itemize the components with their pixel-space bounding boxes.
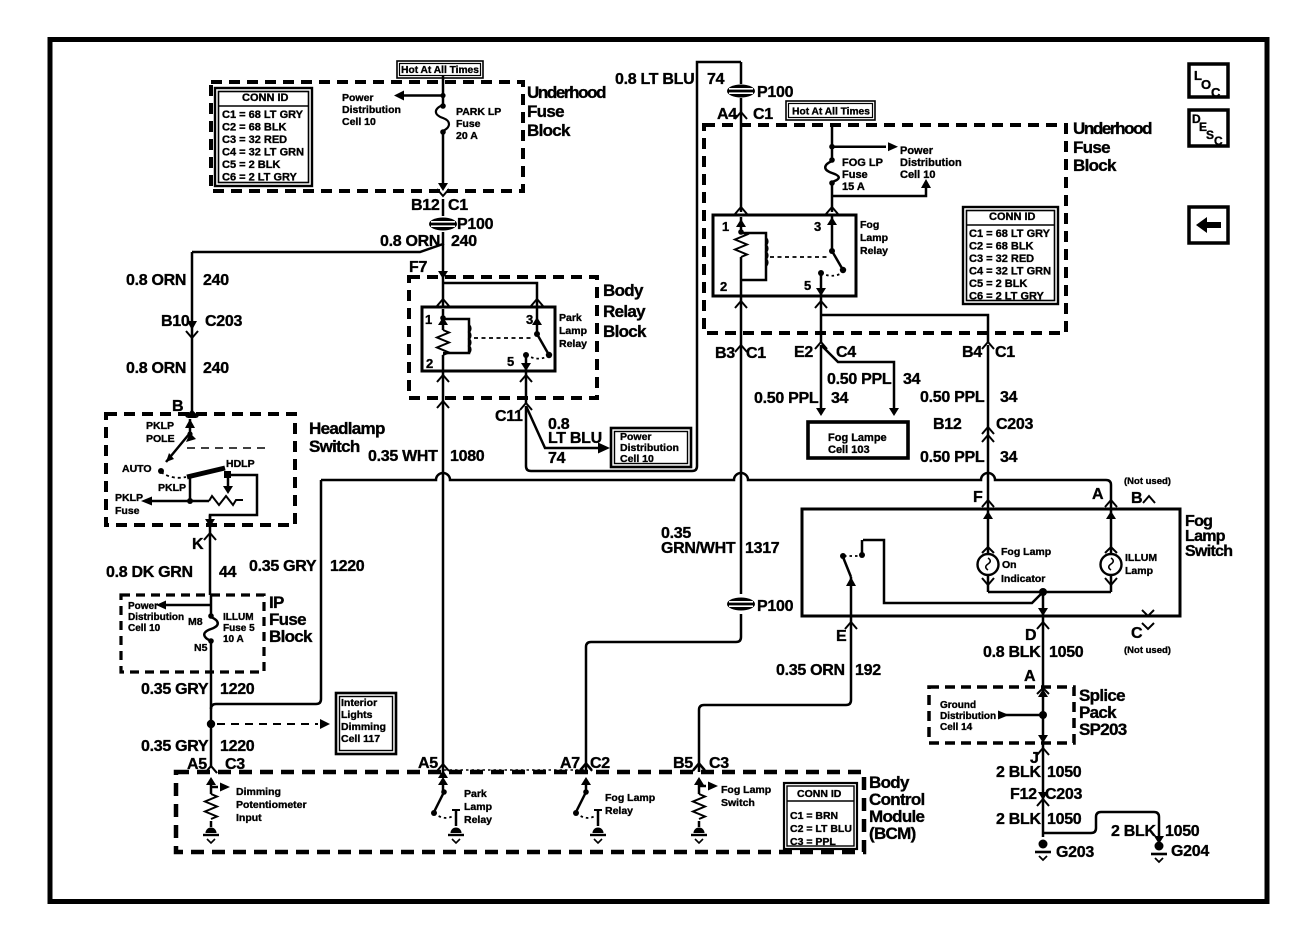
svg-text:Switch: Switch bbox=[309, 437, 360, 456]
svg-text:C5 = 2 BLK: C5 = 2 BLK bbox=[969, 278, 1027, 290]
svg-text:C1: C1 bbox=[995, 344, 1015, 361]
svg-text:(Not used): (Not used) bbox=[1124, 476, 1171, 487]
svg-text:Underhood: Underhood bbox=[1073, 119, 1152, 138]
svg-text:5: 5 bbox=[804, 278, 811, 293]
svg-text:B3: B3 bbox=[715, 345, 735, 362]
svg-text:Fog Lamp: Fog Lamp bbox=[1001, 546, 1051, 558]
svg-text:34: 34 bbox=[831, 390, 849, 407]
svg-text:C2 = 68 BLK: C2 = 68 BLK bbox=[969, 241, 1034, 253]
svg-text:Body: Body bbox=[603, 281, 644, 300]
svg-text:S: S bbox=[1206, 128, 1214, 142]
svg-text:Distribution: Distribution bbox=[940, 711, 996, 722]
svg-text:Dimming: Dimming bbox=[236, 786, 281, 798]
svg-text:1050: 1050 bbox=[1049, 644, 1084, 661]
svg-text:M8: M8 bbox=[188, 616, 203, 628]
svg-text:1050: 1050 bbox=[1047, 811, 1082, 828]
svg-text:Input: Input bbox=[236, 812, 262, 824]
svg-text:POLE: POLE bbox=[146, 433, 175, 445]
svg-text:ILLUM: ILLUM bbox=[223, 612, 254, 623]
svg-text:Relay: Relay bbox=[605, 805, 633, 817]
svg-text:Fog: Fog bbox=[860, 219, 879, 231]
svg-text:C3 = 32 RED: C3 = 32 RED bbox=[222, 134, 287, 146]
svg-text:F12: F12 bbox=[1010, 786, 1037, 803]
svg-text:1050: 1050 bbox=[1165, 823, 1200, 840]
svg-text:2 BLK: 2 BLK bbox=[996, 764, 1041, 781]
svg-text:B10: B10 bbox=[161, 313, 190, 330]
svg-text:PKLP: PKLP bbox=[158, 482, 186, 494]
svg-text:C203: C203 bbox=[205, 313, 242, 330]
svg-text:2 BLK: 2 BLK bbox=[1111, 823, 1156, 840]
svg-text:Interior: Interior bbox=[341, 697, 377, 709]
svg-text:Cell 10: Cell 10 bbox=[342, 116, 376, 128]
svg-text:0.8 ORN: 0.8 ORN bbox=[126, 360, 186, 377]
svg-text:CONN ID: CONN ID bbox=[242, 92, 289, 104]
svg-text:Fuse: Fuse bbox=[842, 169, 868, 181]
svg-text:C: C bbox=[1214, 134, 1223, 148]
svg-text:2: 2 bbox=[720, 279, 727, 294]
svg-text:E: E bbox=[836, 628, 847, 645]
svg-text:C11: C11 bbox=[495, 408, 523, 425]
svg-text:Hot At All Times: Hot At All Times bbox=[792, 107, 870, 118]
svg-text:A4: A4 bbox=[717, 106, 737, 123]
svg-text:A5: A5 bbox=[418, 755, 438, 772]
svg-text:B4: B4 bbox=[962, 344, 982, 361]
svg-text:Lamp: Lamp bbox=[464, 801, 492, 813]
svg-text:C1: C1 bbox=[746, 345, 766, 362]
svg-text:PKLP: PKLP bbox=[115, 492, 143, 504]
svg-text:Block: Block bbox=[603, 322, 647, 341]
svg-text:D: D bbox=[1025, 627, 1036, 644]
svg-text:0.8 ORN: 0.8 ORN bbox=[126, 272, 186, 289]
svg-text:G203: G203 bbox=[1056, 844, 1094, 861]
svg-text:B12: B12 bbox=[411, 197, 440, 214]
svg-text:Block: Block bbox=[1073, 156, 1117, 175]
svg-text:1: 1 bbox=[425, 312, 432, 327]
svg-text:Headlamp: Headlamp bbox=[309, 419, 385, 438]
svg-text:P100: P100 bbox=[757, 598, 794, 615]
svg-text:Potentiometer: Potentiometer bbox=[236, 799, 307, 811]
svg-text:GRN/WHT: GRN/WHT bbox=[661, 540, 736, 557]
svg-text:Lamp: Lamp bbox=[559, 325, 587, 337]
svg-text:AUTO: AUTO bbox=[122, 463, 152, 475]
svg-text:Relay: Relay bbox=[559, 338, 587, 350]
svg-text:240: 240 bbox=[203, 272, 229, 289]
svg-text:192: 192 bbox=[855, 662, 881, 679]
svg-text:240: 240 bbox=[451, 233, 477, 250]
svg-text:C1 = 68 LT GRY: C1 = 68 LT GRY bbox=[222, 109, 304, 121]
svg-text:1050: 1050 bbox=[1047, 764, 1082, 781]
svg-text:0.50 PPL: 0.50 PPL bbox=[754, 390, 819, 407]
svg-text:N5: N5 bbox=[194, 642, 208, 654]
svg-text:Park: Park bbox=[559, 312, 582, 324]
svg-text:C6 = 2 LT GRY: C6 = 2 LT GRY bbox=[969, 291, 1045, 303]
svg-text:Cell 103: Cell 103 bbox=[828, 444, 870, 456]
svg-text:Ground: Ground bbox=[940, 700, 976, 711]
svg-text:1220: 1220 bbox=[220, 738, 255, 755]
svg-text:Fog Lamp: Fog Lamp bbox=[721, 784, 771, 796]
svg-text:B: B bbox=[1131, 490, 1142, 507]
svg-text:15 A: 15 A bbox=[842, 181, 865, 193]
svg-text:C2 = 68 BLK: C2 = 68 BLK bbox=[222, 122, 287, 134]
svg-text:2 BLK: 2 BLK bbox=[996, 811, 1041, 828]
svg-text:1080: 1080 bbox=[450, 448, 485, 465]
svg-text:74: 74 bbox=[548, 450, 566, 467]
svg-text:A: A bbox=[1024, 668, 1036, 685]
svg-text:3: 3 bbox=[814, 219, 821, 234]
svg-text:Fuse: Fuse bbox=[527, 102, 564, 121]
svg-text:(Not used): (Not used) bbox=[1124, 645, 1171, 656]
svg-text:0.50 PPL: 0.50 PPL bbox=[827, 371, 892, 388]
svg-text:Fuse: Fuse bbox=[1073, 138, 1110, 157]
svg-text:C2: C2 bbox=[590, 755, 610, 772]
svg-text:Distribution: Distribution bbox=[128, 612, 184, 623]
svg-text:0.8 BLK: 0.8 BLK bbox=[983, 644, 1041, 661]
svg-text:Dimming: Dimming bbox=[341, 721, 386, 733]
svg-text:0.50 PPL: 0.50 PPL bbox=[920, 389, 985, 406]
svg-text:Cell 10: Cell 10 bbox=[620, 453, 654, 465]
svg-text:0.8 DK GRN: 0.8 DK GRN bbox=[106, 564, 193, 581]
svg-text:B: B bbox=[172, 398, 183, 415]
svg-text:P100: P100 bbox=[457, 216, 494, 233]
svg-text:F7: F7 bbox=[409, 259, 427, 276]
svg-text:HDLP: HDLP bbox=[226, 458, 255, 470]
svg-text:G204: G204 bbox=[1171, 843, 1209, 860]
svg-text:0.50 PPL: 0.50 PPL bbox=[920, 449, 985, 466]
svg-text:PARK LP: PARK LP bbox=[456, 106, 501, 118]
svg-text:Park: Park bbox=[464, 788, 487, 800]
svg-text:34: 34 bbox=[1000, 449, 1018, 466]
svg-text:C5 = 2 BLK: C5 = 2 BLK bbox=[222, 159, 280, 171]
svg-text:CONN ID: CONN ID bbox=[989, 211, 1036, 223]
svg-text:0.35 ORN: 0.35 ORN bbox=[776, 662, 845, 679]
svg-text:Fog Lamp: Fog Lamp bbox=[605, 792, 655, 804]
svg-text:44: 44 bbox=[219, 564, 237, 581]
svg-text:Relay: Relay bbox=[860, 245, 888, 257]
svg-text:0.8 ORN: 0.8 ORN bbox=[380, 233, 440, 250]
svg-text:C4: C4 bbox=[836, 344, 856, 361]
svg-text:Fog Lampe: Fog Lampe bbox=[828, 432, 887, 444]
svg-text:74: 74 bbox=[707, 71, 725, 88]
svg-text:FOG LP: FOG LP bbox=[842, 157, 883, 169]
svg-text:Switch: Switch bbox=[721, 797, 755, 809]
svg-text:C203: C203 bbox=[1045, 786, 1082, 803]
svg-text:0.8 LT BLU: 0.8 LT BLU bbox=[615, 71, 694, 88]
svg-text:240: 240 bbox=[203, 360, 229, 377]
svg-text:B5: B5 bbox=[673, 755, 693, 772]
svg-text:1: 1 bbox=[722, 219, 729, 234]
svg-text:Power: Power bbox=[128, 601, 158, 612]
svg-text:34: 34 bbox=[903, 371, 921, 388]
svg-text:C1: C1 bbox=[448, 197, 468, 214]
svg-text:On: On bbox=[1002, 559, 1017, 571]
svg-text:Fuse 5: Fuse 5 bbox=[223, 623, 255, 634]
svg-text:Lights: Lights bbox=[341, 709, 373, 721]
svg-text:0.35 GRY: 0.35 GRY bbox=[249, 558, 317, 575]
svg-text:A5: A5 bbox=[187, 756, 207, 773]
svg-text:Block: Block bbox=[269, 627, 313, 646]
svg-text:C3: C3 bbox=[709, 755, 729, 772]
svg-text:0.35 GRY: 0.35 GRY bbox=[141, 738, 209, 755]
svg-text:C3: C3 bbox=[225, 756, 245, 773]
svg-text:Distribution: Distribution bbox=[342, 104, 401, 116]
svg-text:P100: P100 bbox=[757, 84, 794, 101]
svg-text:0.35 WHT: 0.35 WHT bbox=[368, 448, 438, 465]
svg-text:34: 34 bbox=[1000, 389, 1018, 406]
svg-text:PKLP: PKLP bbox=[146, 420, 174, 432]
svg-text:Block: Block bbox=[527, 121, 571, 140]
svg-text:(BCM): (BCM) bbox=[869, 824, 916, 843]
svg-text:C203: C203 bbox=[996, 416, 1033, 433]
svg-text:C3 = 32 RED: C3 = 32 RED bbox=[969, 253, 1034, 265]
svg-text:Fuse: Fuse bbox=[115, 505, 140, 517]
svg-text:Fuse: Fuse bbox=[456, 118, 481, 130]
svg-text:C1 = BRN: C1 = BRN bbox=[790, 810, 838, 822]
svg-text:Cell 10: Cell 10 bbox=[900, 169, 935, 181]
svg-text:3: 3 bbox=[526, 312, 533, 327]
svg-text:A7: A7 bbox=[560, 755, 580, 772]
svg-text:O: O bbox=[1201, 77, 1211, 92]
svg-text:Relay: Relay bbox=[603, 302, 646, 321]
svg-text:K: K bbox=[192, 536, 204, 553]
svg-text:C1: C1 bbox=[753, 106, 773, 123]
svg-text:Lamp: Lamp bbox=[860, 232, 888, 244]
svg-text:A: A bbox=[1092, 486, 1104, 503]
svg-text:Indicator: Indicator bbox=[1001, 573, 1045, 585]
svg-text:C6 = 2 LT GRY: C6 = 2 LT GRY bbox=[222, 172, 298, 184]
svg-text:Cell 117: Cell 117 bbox=[341, 733, 380, 745]
svg-text:CONN ID: CONN ID bbox=[797, 788, 842, 800]
svg-text:C2 = LT BLU: C2 = LT BLU bbox=[790, 823, 852, 835]
svg-text:1220: 1220 bbox=[330, 558, 365, 575]
svg-text:Distribution: Distribution bbox=[900, 157, 962, 169]
svg-text:C: C bbox=[1131, 625, 1143, 642]
svg-text:0.35 GRY: 0.35 GRY bbox=[141, 681, 209, 698]
svg-text:Switch: Switch bbox=[1185, 543, 1232, 560]
svg-text:F: F bbox=[973, 489, 983, 506]
svg-text:LT BLU: LT BLU bbox=[548, 430, 602, 447]
svg-text:Cell 10: Cell 10 bbox=[128, 623, 161, 634]
svg-text:C4 = 32 LT GRN: C4 = 32 LT GRN bbox=[222, 147, 304, 159]
svg-text:C1 = 68 LT GRY: C1 = 68 LT GRY bbox=[969, 228, 1051, 240]
svg-text:20 A: 20 A bbox=[456, 130, 478, 142]
svg-text:Power: Power bbox=[342, 92, 374, 104]
svg-text:5: 5 bbox=[507, 354, 514, 369]
svg-text:1220: 1220 bbox=[220, 681, 255, 698]
svg-text:B12: B12 bbox=[933, 416, 962, 433]
svg-text:E2: E2 bbox=[794, 344, 813, 361]
svg-text:Hot At All Times: Hot At All Times bbox=[401, 65, 479, 76]
svg-text:10 A: 10 A bbox=[223, 634, 244, 645]
svg-text:2: 2 bbox=[426, 356, 433, 371]
svg-text:Relay: Relay bbox=[464, 814, 492, 826]
svg-text:C: C bbox=[1211, 85, 1221, 100]
svg-text:C3 = PPL: C3 = PPL bbox=[790, 836, 836, 848]
svg-text:Power: Power bbox=[900, 145, 934, 157]
svg-text:ILLUM: ILLUM bbox=[1125, 552, 1157, 564]
svg-text:Underhood: Underhood bbox=[527, 83, 606, 102]
svg-text:Lamp: Lamp bbox=[1125, 565, 1153, 577]
svg-text:1317: 1317 bbox=[745, 540, 780, 557]
svg-text:Cell 14: Cell 14 bbox=[940, 722, 973, 733]
svg-text:SP203: SP203 bbox=[1079, 720, 1127, 739]
svg-text:C4 = 32 LT GRN: C4 = 32 LT GRN bbox=[969, 266, 1051, 278]
